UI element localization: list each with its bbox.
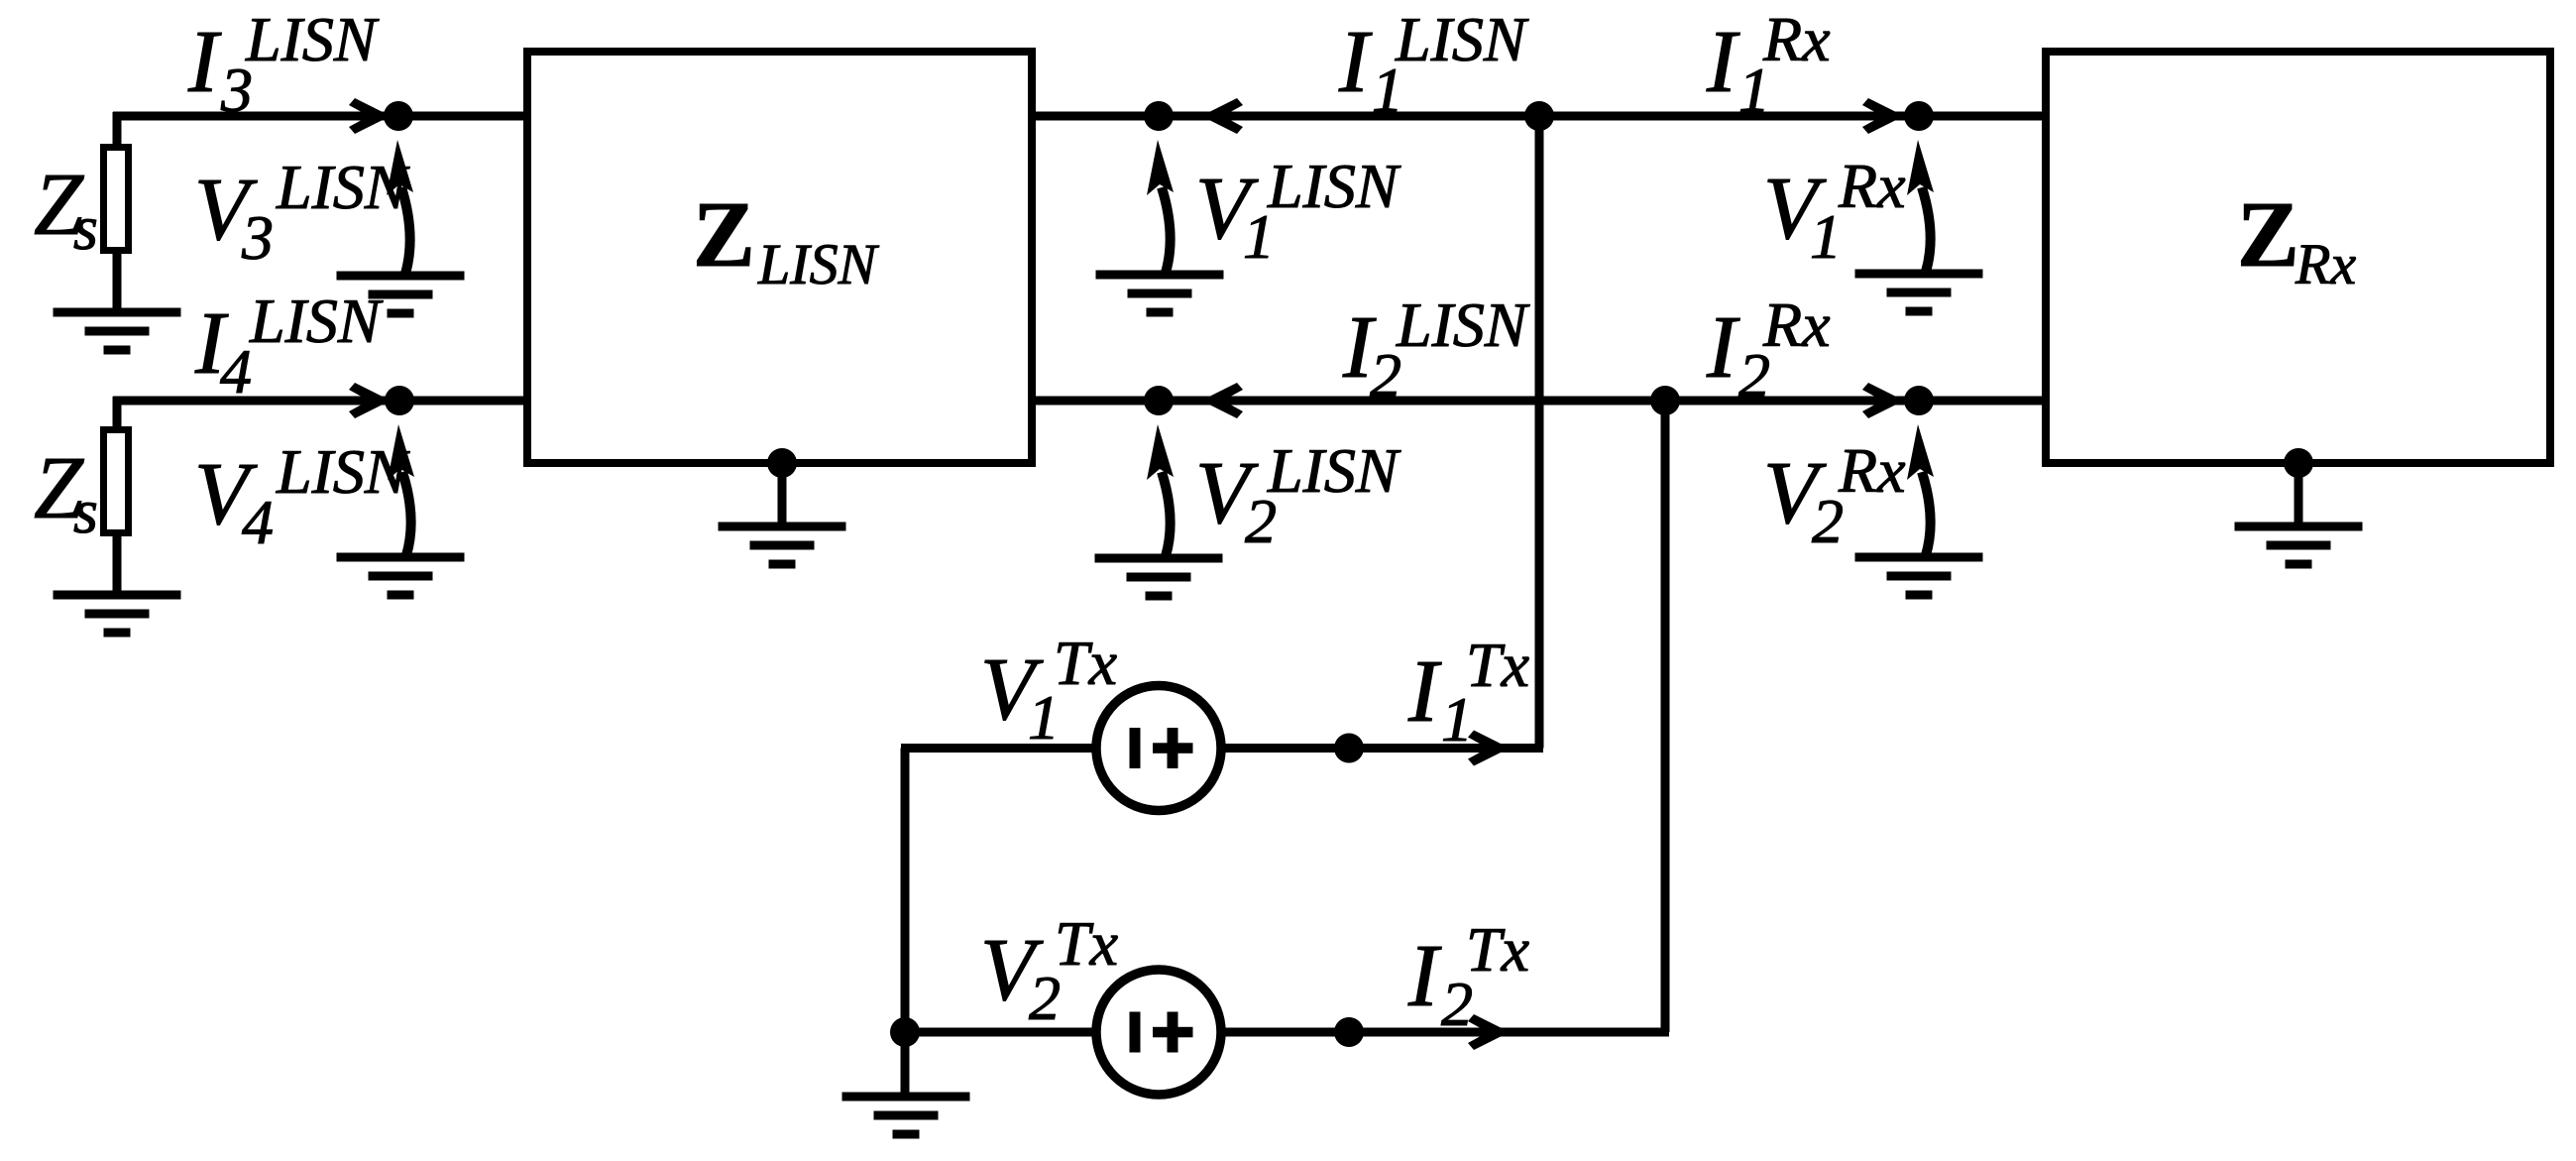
svg-text:LISN: LISN [1396,290,1530,360]
wire left drop to Zs2 [113,397,122,432]
svg-text:LISN: LISN [276,152,410,222]
resistor Zs1 [104,148,129,251]
voltage arrow V3LISN [387,140,413,274]
resistor Zs2 [104,430,129,533]
label I1 Tx [1407,630,1529,755]
ground V4 [337,557,465,595]
svg-text:s: s [73,476,98,546]
svg-text:Rx: Rx [1838,435,1906,506]
node Tx1 wire [1334,734,1364,763]
label I2 LISN [1342,290,1530,410]
label I1 Rx [1706,4,1831,125]
wire Z_Rx ground stub [2295,463,2303,526]
node Z_LISN ground [767,448,797,478]
label Zs2 [34,439,98,546]
svg-text:Z: Z [693,183,755,287]
label V1 LISN [1195,151,1401,272]
label I3 LISN [187,4,380,125]
label V1 Rx [1763,151,1906,272]
impedance box Z_Rx [2046,52,2550,463]
label V2 Rx [1763,435,1906,556]
ground under Zs2 [54,595,181,633]
wire vertical Tx1 feed (node A to Tx1) [1535,116,1544,749]
ground Tx loop [842,1097,970,1134]
svg-text:4: 4 [242,487,274,557]
ground V1LISN [1096,275,1224,312]
label V2 LISN [1195,435,1401,556]
svg-text:LISN: LISN [1395,4,1529,74]
wire vertical Tx2 feed (node B to Tx2) [1661,401,1670,1032]
label V2 Tx [980,908,1118,1033]
node Z_Rx ground [2284,448,2313,478]
arrow I2LISN (into node B-mid) [1201,383,1243,418]
voltage source V2Tx [1096,970,1221,1095]
label I2 Rx [1706,290,1831,410]
node Tx2 wire [1334,1017,1364,1047]
svg-text:I: I [1706,298,1740,397]
svg-text:Tx: Tx [1055,908,1118,979]
ground V2Rx [1855,557,1983,595]
wire Tx loop left vertical [901,749,910,1033]
wire Zs2 to ground [113,533,122,595]
svg-text:Rx: Rx [1838,151,1906,221]
svg-text:I: I [1338,13,1373,111]
label Zs1 [34,156,98,263]
svg-text:LISN: LISN [1267,435,1401,506]
node A-mid [1144,101,1174,131]
arrow I2Rx (into node B-right) [1862,383,1904,418]
label I2 Tx [1407,914,1529,1039]
svg-text:Tx: Tx [1054,628,1117,698]
label V4 LISN [194,436,410,557]
svg-text:LISN: LISN [245,4,380,74]
svg-text:Z: Z [2237,183,2299,287]
arrow I4 (into node B-left) [349,383,391,418]
wire row-B right segment (Z_LISN to Z_Rx) [1028,397,2050,406]
node B-left [385,386,414,415]
wire left drop to Zs1 [113,112,122,147]
wire row-A right segment (Z_LISN to Z_Rx) [1028,112,2050,121]
voltage arrow V1Rx [1907,140,1934,272]
ground V2LISN [1095,558,1223,596]
wire Zs1 to ground [113,251,122,312]
svg-text:Tx: Tx [1466,630,1529,700]
svg-text:1: 1 [1810,201,1842,272]
wire row-A left segment [113,112,531,121]
svg-text:LISN: LISN [276,436,410,507]
arrow I3 (into node A-left) [349,98,391,134]
voltage arrow V2Rx [1907,424,1934,555]
svg-text:I: I [187,13,222,111]
svg-text:Rx: Rx [1762,4,1831,74]
svg-text:I: I [1706,13,1740,111]
voltage arrow V4LISN [388,424,414,555]
wire Tx loop to bottom ground [901,1032,910,1097]
wire row-B left segment [113,397,531,406]
ground V3 [337,276,465,313]
label Z_Rx [2237,183,2356,296]
svg-text:I: I [1407,642,1442,741]
label V3 LISN [194,152,410,273]
wire Z_LISN ground stub [778,463,787,526]
ground V1Rx [1855,274,1983,311]
label I1 LISN [1338,4,1529,125]
node Tx loop bottom [890,1017,920,1047]
label V1 Tx [980,628,1117,753]
ground under Z_LISN [719,526,846,564]
label I4 LISN [194,286,384,406]
node B-tx junction [1650,386,1680,415]
voltage source V1Tx [1096,686,1221,811]
wire Tx2 left of source [901,1028,1093,1037]
node B-right [1904,386,1934,415]
wire Tx2 right of source [1225,1028,1669,1037]
svg-text:LISN: LISN [249,286,384,356]
svg-text:Tx: Tx [1466,914,1529,985]
label Z_LISN [693,183,880,296]
arrow I1LISN (into node A-mid) [1201,98,1243,134]
svg-text:Rx: Rx [2295,232,2356,296]
voltage arrow V2LISN [1147,424,1174,556]
arrow I1Tx [1468,731,1510,766]
ground under Zs1 [54,312,181,350]
wire Tx1 right of source [1225,744,1543,753]
svg-text:LISN: LISN [1267,151,1401,221]
arrow I1Rx (into node A-right) [1862,98,1904,134]
node A-left [384,101,413,131]
svg-text:LISN: LISN [757,232,880,296]
svg-text:4: 4 [220,336,252,406]
svg-text:Rx: Rx [1762,290,1831,360]
svg-text:3: 3 [241,202,274,273]
arrow I2Tx [1468,1014,1510,1050]
svg-text:I: I [1407,927,1442,1025]
ground under Z_Rx [2235,526,2363,564]
voltage arrow V1LISN [1147,140,1174,273]
node A-right [1904,101,1934,131]
node A-tx junction [1524,101,1554,131]
node B-mid [1144,386,1174,415]
wire Tx1 left of source [901,744,1093,753]
impedance box Z_LISN [527,52,1032,463]
svg-text:s: s [73,192,98,263]
